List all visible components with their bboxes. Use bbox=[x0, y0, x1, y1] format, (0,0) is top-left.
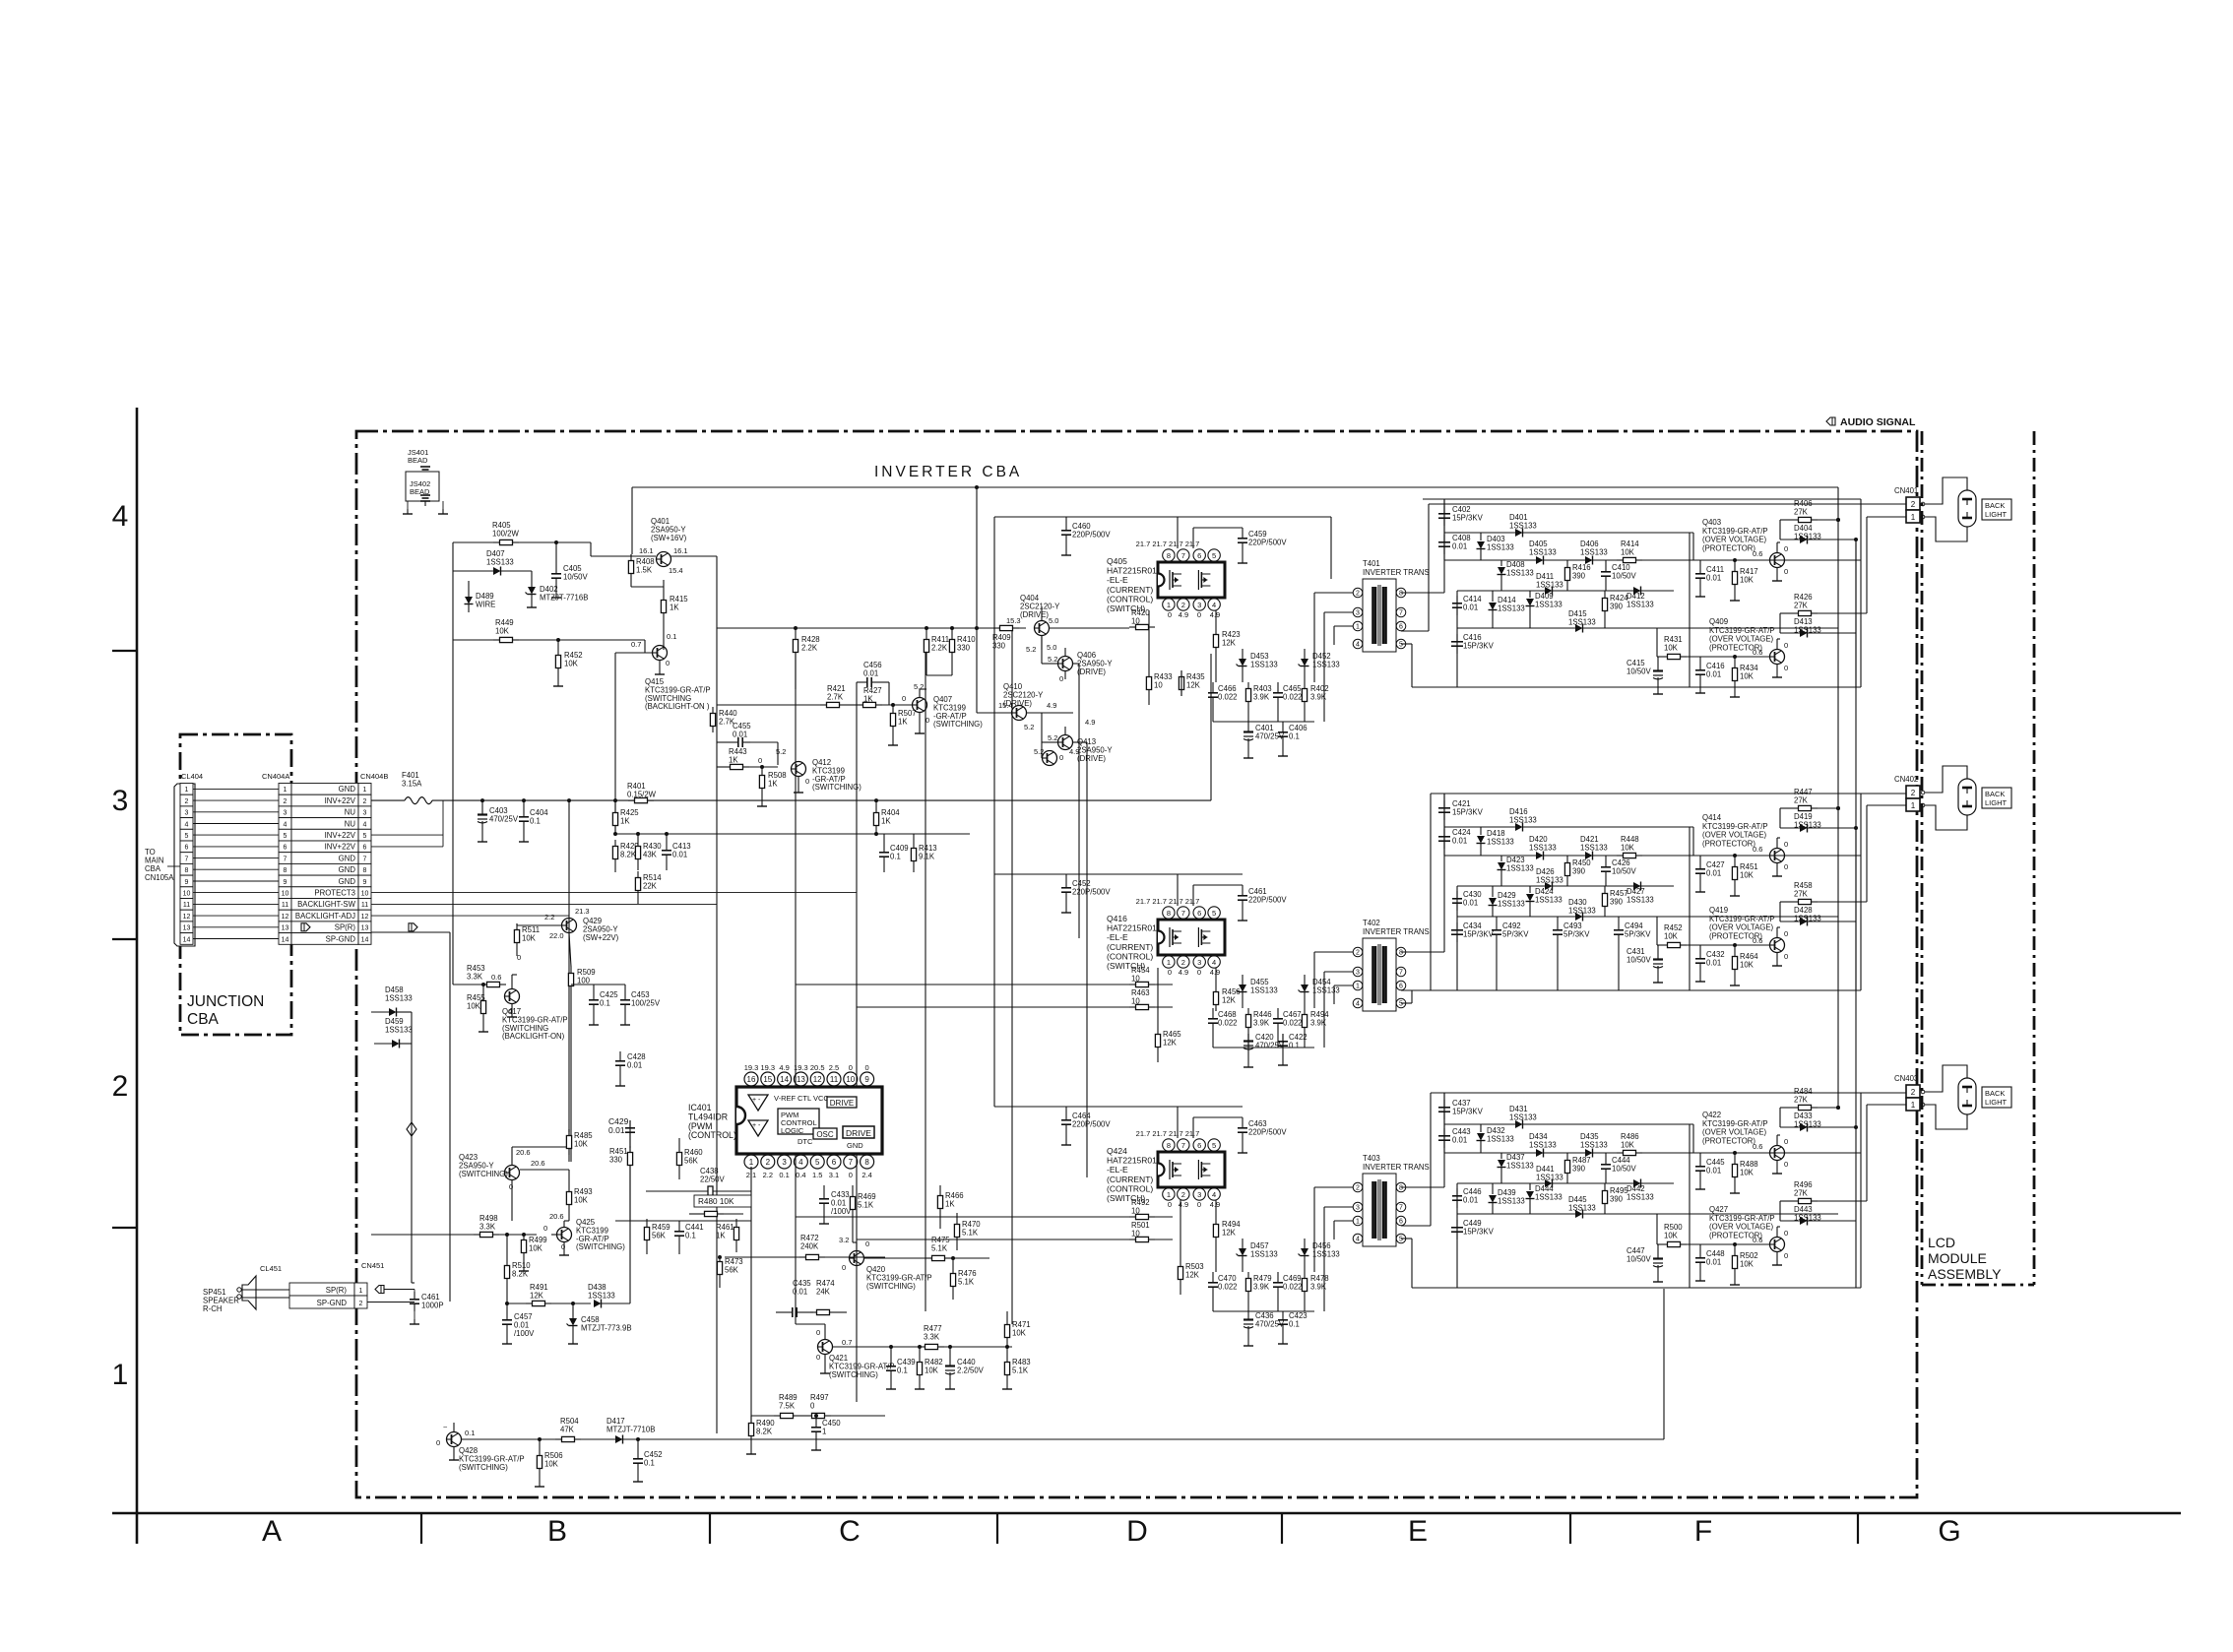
backlight lamp bbox=[1925, 766, 1967, 793]
capacitor C464 220P/500V bbox=[1065, 1112, 1067, 1120]
svg-text:21.7 21.7 21.7 21.7: 21.7 21.7 21.7 21.7 bbox=[1136, 540, 1200, 548]
svg-text:1SS133: 1SS133 bbox=[1535, 600, 1563, 608]
resistor R495 390 bbox=[1604, 1184, 1606, 1191]
resistor R404 1K bbox=[875, 806, 877, 813]
svg-text:22/50V: 22/50V bbox=[700, 1175, 726, 1183]
secondary rail r4 bbox=[1457, 1213, 1838, 1215]
svg-text:15P/3KV: 15P/3KV bbox=[1452, 807, 1484, 816]
resistor R477 3.3K bbox=[919, 1346, 925, 1348]
svg-text:(CONTROL): (CONTROL) bbox=[1107, 594, 1153, 604]
svg-text:0.1: 0.1 bbox=[667, 632, 676, 641]
svg-text:0: 0 bbox=[543, 1224, 547, 1233]
svg-text:0.6: 0.6 bbox=[1753, 1236, 1762, 1244]
svg-text:8.2K: 8.2K bbox=[756, 1427, 773, 1435]
svg-text:390: 390 bbox=[1572, 1164, 1586, 1173]
capacitor C404 0.1 bbox=[523, 809, 525, 817]
svg-text:KTC3199-GR-AT/P: KTC3199-GR-AT/P bbox=[1709, 626, 1775, 635]
svg-text:0: 0 bbox=[925, 716, 929, 725]
svg-text:0: 0 bbox=[1784, 1251, 1788, 1260]
svg-text:LIGHT: LIGHT bbox=[1985, 798, 2008, 807]
svg-text:+ -: + - bbox=[752, 1097, 761, 1104]
svg-text:0: 0 bbox=[810, 1401, 815, 1410]
resistor R480 10K boxed bbox=[694, 1195, 751, 1207]
resistor R411 2.2K bbox=[925, 633, 927, 640]
svg-text:HAT2215R01: HAT2215R01 bbox=[1107, 923, 1157, 933]
svg-text:10K: 10K bbox=[495, 626, 510, 635]
svg-text:1: 1 bbox=[1911, 1101, 1916, 1110]
wire BACKLIGHT-SW row 11 bbox=[371, 903, 717, 905]
svg-text:220P/500V: 220P/500V bbox=[1072, 887, 1111, 896]
secondary rail r2 bbox=[1444, 1152, 1861, 1154]
svg-text:27K: 27K bbox=[1794, 1188, 1809, 1197]
capacitor C413 0.01 bbox=[666, 843, 668, 851]
svg-text:1SS133: 1SS133 bbox=[1568, 906, 1596, 915]
secondary rail r2 bbox=[1444, 559, 1861, 561]
transistor Q429 2SA950-Y SW+22V bbox=[562, 919, 577, 933]
svg-text:10K: 10K bbox=[1740, 575, 1754, 584]
bottom wire y1462 from Q428 bbox=[461, 1438, 1664, 1440]
svg-text:2: 2 bbox=[1356, 1185, 1360, 1192]
svg-text:/100V: /100V bbox=[831, 1207, 852, 1216]
transistor Q415 KTC3199 bbox=[653, 646, 668, 661]
svg-text:0.01: 0.01 bbox=[1463, 1195, 1478, 1204]
svg-text:1SS133: 1SS133 bbox=[1487, 837, 1514, 846]
svg-text:1: 1 bbox=[822, 1427, 826, 1435]
secondary rail r3 bbox=[1457, 590, 1674, 592]
resistor R452 10K bbox=[557, 649, 559, 656]
resistor R475 5.1K bbox=[925, 1257, 932, 1259]
svg-text:NU: NU bbox=[345, 808, 356, 817]
svg-text:0.01: 0.01 bbox=[608, 1125, 625, 1135]
svg-text:1SS133: 1SS133 bbox=[1529, 547, 1557, 556]
wire bus riser x1230 bbox=[1210, 654, 1212, 800]
svg-text:1K: 1K bbox=[716, 1231, 726, 1239]
resistor R466 1K bbox=[939, 1189, 941, 1196]
IC401 comparator triangles bbox=[748, 1095, 768, 1111]
svg-text:(OVER VOLTAGE): (OVER VOLTAGE) bbox=[1702, 831, 1767, 840]
svg-text:1: 1 bbox=[359, 1288, 363, 1295]
wire 22V feed vertical x1010 bbox=[993, 517, 995, 1107]
svg-text:(SWITCHING): (SWITCHING) bbox=[829, 1370, 878, 1379]
svg-text:C: C bbox=[839, 1515, 861, 1548]
capacitor C425 0.1 bbox=[593, 992, 595, 1000]
sub-bus y847 bbox=[615, 833, 970, 835]
transistor Q419 2SA950-Y drive bbox=[1043, 751, 1057, 766]
resistor R427 1K bbox=[857, 704, 863, 706]
svg-text:4.9: 4.9 bbox=[1210, 610, 1220, 619]
svg-text:10/50V: 10/50V bbox=[1612, 866, 1637, 875]
capacitor C449 15P/3KV bbox=[1456, 1220, 1458, 1228]
svg-text:3: 3 bbox=[185, 810, 189, 817]
svg-text:OSC: OSC bbox=[816, 1130, 834, 1139]
resistor R451 330 bbox=[629, 1146, 631, 1153]
svg-text:22.0: 22.0 bbox=[549, 931, 564, 940]
svg-text:12: 12 bbox=[361, 914, 369, 921]
svg-text:0.01: 0.01 bbox=[1463, 898, 1478, 907]
capacitor C421 15P/3KV bbox=[1443, 800, 1445, 808]
svg-text:5.2: 5.2 bbox=[1034, 747, 1044, 756]
svg-text:5: 5 bbox=[815, 1158, 820, 1167]
capacitor C460 220P/500V bbox=[1065, 523, 1067, 531]
svg-text:3.3K: 3.3K bbox=[479, 1222, 496, 1231]
svg-text:(PROTECTOR): (PROTECTOR) bbox=[1702, 1136, 1755, 1145]
svg-text:20.6: 20.6 bbox=[516, 1148, 531, 1157]
capacitor C403 470/25V electrolytic bbox=[481, 807, 483, 815]
resistor R473 56K bbox=[719, 1255, 721, 1262]
svg-text:2: 2 bbox=[1181, 601, 1185, 609]
resistor R433 10 bbox=[1148, 670, 1150, 677]
svg-text:2.7K: 2.7K bbox=[827, 692, 844, 701]
svg-text:9: 9 bbox=[185, 879, 189, 886]
diode D407 1SS133 bbox=[493, 567, 501, 575]
svg-text:DTC: DTC bbox=[797, 1137, 813, 1146]
capacitor C411 0.01 bbox=[1699, 566, 1701, 574]
svg-text:(SWITCHING): (SWITCHING) bbox=[576, 1242, 625, 1251]
svg-text:1SS133: 1SS133 bbox=[1487, 542, 1514, 551]
svg-text:1SS133: 1SS133 bbox=[1312, 985, 1340, 994]
svg-text:SP(R): SP(R) bbox=[326, 1286, 348, 1295]
svg-text:3: 3 bbox=[1356, 970, 1360, 977]
resistor R435 12K bbox=[1180, 670, 1182, 677]
svg-text:INV+22V: INV+22V bbox=[325, 843, 356, 852]
svg-text:3: 3 bbox=[112, 785, 129, 817]
capacitor C422 0.1 bbox=[1282, 1034, 1284, 1042]
svg-text:9: 9 bbox=[864, 1075, 869, 1084]
vertical wire x870 bbox=[856, 705, 858, 1402]
svg-text:10K: 10K bbox=[574, 1195, 589, 1204]
svg-text:7: 7 bbox=[185, 856, 189, 862]
svg-text:MTZJT-7716B: MTZJT-7716B bbox=[540, 593, 588, 602]
resistor R514 22K bbox=[637, 871, 639, 878]
svg-text:3: 3 bbox=[1197, 601, 1201, 609]
svg-text:12K: 12K bbox=[1222, 1228, 1237, 1237]
svg-text:-EL-E: -EL-E bbox=[1107, 932, 1128, 942]
svg-text:10K: 10K bbox=[1621, 547, 1635, 556]
svg-text:CN404A: CN404A bbox=[262, 772, 289, 781]
secondary rail r4 bbox=[1457, 916, 1838, 918]
resistor R488 10K bbox=[1734, 1158, 1736, 1165]
svg-text:0.6: 0.6 bbox=[1753, 549, 1762, 558]
resistor R413 9.1K bbox=[913, 842, 915, 849]
IC401 pin 15 bbox=[761, 1072, 775, 1086]
svg-text:330: 330 bbox=[609, 1155, 623, 1164]
svg-text:11: 11 bbox=[282, 902, 288, 909]
svg-text:16.1: 16.1 bbox=[639, 546, 654, 555]
resistor R440 2.7K bbox=[712, 707, 714, 714]
svg-text:10K: 10K bbox=[574, 1139, 589, 1148]
diode D426 1SS133 bbox=[1545, 882, 1553, 890]
secondary bottom rail bbox=[1412, 686, 1861, 688]
svg-text:2: 2 bbox=[1356, 591, 1360, 598]
svg-text:2.7K: 2.7K bbox=[719, 717, 735, 726]
svg-text:1K: 1K bbox=[945, 1199, 955, 1208]
svg-text:15P/3KV: 15P/3KV bbox=[1452, 1107, 1484, 1115]
svg-text:Q405: Q405 bbox=[1107, 556, 1127, 566]
svg-text:AUDIO SIGNAL: AUDIO SIGNAL bbox=[1840, 416, 1916, 428]
svg-text:Q414: Q414 bbox=[1702, 813, 1722, 822]
svg-text:390: 390 bbox=[1610, 897, 1624, 906]
resistor R509 100 bbox=[570, 967, 572, 974]
diode D454 1SS133 bbox=[1301, 985, 1308, 992]
svg-text:5.2: 5.2 bbox=[914, 682, 924, 691]
resistor R464 10K bbox=[1734, 950, 1736, 957]
svg-text:+ -: + - bbox=[752, 1122, 761, 1129]
resistor R430 43K bbox=[637, 840, 639, 847]
svg-text:100/2W: 100/2W bbox=[492, 529, 520, 538]
capacitor C406 0.1 bbox=[1282, 725, 1284, 732]
svg-text:240K: 240K bbox=[800, 1241, 819, 1250]
svg-text:5.2: 5.2 bbox=[1048, 733, 1057, 742]
resistor R507 1K bbox=[892, 707, 894, 714]
svg-text:12K: 12K bbox=[1222, 638, 1237, 647]
svg-text:INVERTER CBA: INVERTER CBA bbox=[874, 464, 1022, 480]
resistor R508 1K bbox=[761, 769, 763, 776]
capacitor C470 0.022 bbox=[1212, 1275, 1214, 1283]
svg-text:CN404B: CN404B bbox=[360, 772, 388, 781]
diode D434 1SS133 bbox=[1536, 1149, 1544, 1157]
transistor Q417 KTC3199 backlight-on bbox=[505, 989, 520, 1004]
secondary rail r4 bbox=[1457, 627, 1838, 629]
resistor R401 0.15/2W bbox=[628, 799, 635, 801]
diode D405 1SS133 bbox=[1536, 556, 1544, 564]
svg-text:8: 8 bbox=[185, 867, 189, 874]
svg-text:10K: 10K bbox=[1740, 870, 1754, 879]
svg-text:0.4: 0.4 bbox=[796, 1171, 805, 1179]
svg-text:6: 6 bbox=[1399, 984, 1403, 990]
svg-text:0.6: 0.6 bbox=[1753, 845, 1762, 854]
transistor Q428 KTC3199 switching bbox=[447, 1432, 462, 1447]
resistor R446 3.9K bbox=[1247, 1008, 1249, 1015]
capacitor C427 0.01 bbox=[1699, 861, 1701, 869]
svg-text:2.2K: 2.2K bbox=[801, 643, 818, 652]
svg-text:5: 5 bbox=[284, 833, 287, 840]
resistor R415 1K bbox=[663, 594, 665, 601]
svg-text:5: 5 bbox=[1399, 1237, 1403, 1243]
capacitor C437 15P/3KV bbox=[1443, 1100, 1445, 1108]
capacitor C429 0.01 bbox=[629, 1120, 631, 1128]
svg-text:6: 6 bbox=[1399, 624, 1403, 631]
svg-text:BEAD: BEAD bbox=[408, 456, 428, 465]
column tick marks bbox=[420, 1513, 422, 1544]
svg-text:7: 7 bbox=[1181, 1141, 1185, 1150]
svg-text:CTL: CTL bbox=[797, 1094, 811, 1103]
svg-text:21.7 21.7 21.7 21.7: 21.7 21.7 21.7 21.7 bbox=[1136, 1129, 1200, 1138]
svg-text:0: 0 bbox=[1168, 610, 1172, 619]
svg-text:220P/500V: 220P/500V bbox=[1248, 538, 1287, 546]
svg-text:4: 4 bbox=[1212, 1190, 1216, 1199]
svg-text:220P/500V: 220P/500V bbox=[1072, 530, 1111, 539]
svg-text:0: 0 bbox=[865, 1063, 869, 1072]
svg-text:INVERTER TRANS: INVERTER TRANS bbox=[1363, 927, 1430, 936]
svg-text:E: E bbox=[1408, 1515, 1428, 1548]
svg-text:R480 10K: R480 10K bbox=[698, 1197, 734, 1206]
svg-text:7: 7 bbox=[284, 856, 287, 862]
svg-text:1SS133: 1SS133 bbox=[1627, 1192, 1654, 1201]
svg-text:13: 13 bbox=[361, 925, 369, 932]
svg-text:0.6: 0.6 bbox=[1753, 648, 1762, 657]
svg-text:6: 6 bbox=[1197, 551, 1201, 560]
capacitor C423 0.1 bbox=[1282, 1312, 1284, 1320]
capacitor C468 0.022 bbox=[1212, 1011, 1214, 1019]
diode D438 1SS133 bbox=[594, 1300, 602, 1307]
capacitor C453 100/25V bbox=[624, 992, 626, 1000]
svg-text:0: 0 bbox=[816, 1353, 820, 1362]
resistor R410 330 bbox=[951, 633, 953, 640]
resistor R461 1K bbox=[735, 1221, 737, 1228]
svg-text:KTC3199-GR-AT/P: KTC3199-GR-AT/P bbox=[1702, 527, 1768, 536]
svg-text:0.01: 0.01 bbox=[1452, 836, 1467, 845]
svg-text:1SS133: 1SS133 bbox=[1535, 895, 1563, 904]
svg-text:1K: 1K bbox=[729, 755, 738, 764]
svg-text:F: F bbox=[1694, 1515, 1712, 1548]
capacitor C426 10/50V bbox=[1605, 859, 1607, 867]
wire y1438 R489/R497 row bbox=[751, 1415, 885, 1417]
wire quad bottom bbox=[1213, 1310, 1314, 1312]
wires CL404 to CN404A bbox=[193, 788, 279, 790]
svg-text:SP-GND: SP-GND bbox=[317, 1299, 348, 1307]
svg-text:(SWITCHING): (SWITCHING) bbox=[812, 783, 861, 792]
resistor R503 12K bbox=[1180, 1260, 1181, 1267]
svg-text:4.9: 4.9 bbox=[1179, 610, 1188, 619]
svg-text:0: 0 bbox=[1059, 674, 1063, 683]
svg-text:8: 8 bbox=[864, 1158, 869, 1167]
resistor R494 3.9K bbox=[1304, 1008, 1306, 1015]
svg-text:PROTECT3: PROTECT3 bbox=[314, 889, 355, 898]
svg-text:(CONTROL): (CONTROL) bbox=[1107, 951, 1153, 961]
svg-text:0.022: 0.022 bbox=[1283, 692, 1303, 701]
svg-text:0.1: 0.1 bbox=[1289, 731, 1300, 740]
svg-text:5.2: 5.2 bbox=[776, 747, 786, 756]
svg-text:56K: 56K bbox=[652, 1231, 667, 1239]
capacitor C420 470/25V bbox=[1247, 1034, 1249, 1042]
IC401 pin 7 bbox=[844, 1155, 858, 1169]
svg-text:2.2/50V: 2.2/50V bbox=[957, 1366, 985, 1374]
diode D420 1SS133 bbox=[1536, 852, 1544, 859]
capacitor C446 0.01 bbox=[1456, 1188, 1458, 1196]
wire IC401 drive to ch3 R492/R501 bbox=[796, 1216, 1129, 1218]
svg-text:1SS133: 1SS133 bbox=[1535, 1192, 1563, 1201]
svg-text:8: 8 bbox=[1167, 551, 1171, 560]
diode D401 1SS133 bbox=[1515, 529, 1523, 537]
svg-text:INV+22V: INV+22V bbox=[325, 796, 356, 805]
IC401 pin 9 bbox=[861, 1072, 874, 1086]
BACK LIGHT label bbox=[1982, 1087, 2011, 1108]
backlight lamp bbox=[1925, 1065, 1967, 1092]
svg-text:0.7: 0.7 bbox=[842, 1338, 852, 1347]
resistor R490 8.2K bbox=[750, 1417, 752, 1424]
svg-text:10K: 10K bbox=[1740, 1259, 1754, 1268]
svg-text:4.9: 4.9 bbox=[1179, 968, 1188, 977]
capacitor C415 10/50V at protector bbox=[1657, 664, 1659, 671]
IC401 pin 6 bbox=[827, 1155, 841, 1169]
svg-text:CN105A: CN105A bbox=[145, 873, 174, 882]
svg-text:0: 0 bbox=[517, 953, 521, 962]
svg-text:ASSEMBLY: ASSEMBLY bbox=[1928, 1266, 2002, 1282]
svg-text:220P/500V: 220P/500V bbox=[1072, 1119, 1111, 1128]
diode D441 1SS133 bbox=[1545, 1179, 1553, 1187]
svg-text:21.7 21.7 21.7 21.7: 21.7 21.7 21.7 21.7 bbox=[1136, 897, 1200, 906]
resistor R479 3.9K bbox=[1247, 1272, 1249, 1279]
secondary top rail bbox=[1423, 498, 1861, 500]
svg-text:10K: 10K bbox=[564, 659, 579, 667]
svg-text:Q416: Q416 bbox=[1107, 914, 1127, 923]
wire top feed y495 bbox=[632, 486, 1838, 488]
svg-text:1SS133: 1SS133 bbox=[1506, 1161, 1534, 1170]
svg-text:JUNCTION: JUNCTION bbox=[187, 993, 264, 1010]
svg-text:4.9: 4.9 bbox=[1069, 747, 1079, 756]
transformer lead wires bbox=[1314, 951, 1353, 953]
svg-text:(OVER VOLTAGE): (OVER VOLTAGE) bbox=[1709, 1223, 1774, 1232]
svg-text:6: 6 bbox=[1197, 909, 1201, 918]
svg-text:0: 0 bbox=[1168, 1200, 1172, 1209]
vertical wire x763 from IC401 pin1 bbox=[750, 1167, 752, 1432]
svg-text:20.6: 20.6 bbox=[531, 1159, 545, 1168]
svg-text:LCD: LCD bbox=[1928, 1235, 1955, 1250]
svg-text:1K: 1K bbox=[898, 717, 908, 726]
capacitor C469 0.022 bbox=[1277, 1275, 1279, 1283]
svg-text:Q427: Q427 bbox=[1709, 1205, 1728, 1214]
capacitor C402 15P/3KV bbox=[1443, 506, 1445, 514]
svg-text:10/50V: 10/50V bbox=[563, 572, 589, 581]
svg-text:1SS133: 1SS133 bbox=[1312, 660, 1340, 668]
svg-text:DRIVE: DRIVE bbox=[830, 1099, 854, 1108]
transistor Q420 KTC3199 switching bbox=[850, 1251, 864, 1266]
svg-text:CN401: CN401 bbox=[1894, 486, 1918, 495]
secondary rail r3 bbox=[1457, 885, 1674, 887]
svg-text:KTC3199-GR-AT/P: KTC3199-GR-AT/P bbox=[1702, 822, 1768, 831]
resistor R476 5.1K bbox=[952, 1267, 954, 1274]
svg-text:4.9: 4.9 bbox=[1179, 1200, 1188, 1209]
svg-text:6: 6 bbox=[185, 845, 189, 852]
svg-text:3: 3 bbox=[1356, 610, 1360, 617]
svg-text:2.2: 2.2 bbox=[763, 1171, 773, 1179]
svg-text:0: 0 bbox=[666, 659, 670, 667]
svg-text:1SS133: 1SS133 bbox=[1536, 580, 1563, 589]
svg-text:BACKLIGHT-ADJ: BACKLIGHT-ADJ bbox=[295, 912, 355, 921]
svg-text:CL451: CL451 bbox=[260, 1264, 282, 1273]
svg-text:GND: GND bbox=[339, 785, 356, 794]
resistor R448 10K bbox=[1617, 855, 1624, 857]
wire PROTECT3 row 10 bbox=[371, 892, 857, 894]
capacitor C444 10/50V bbox=[1605, 1157, 1607, 1165]
svg-text:0.01: 0.01 bbox=[1452, 541, 1467, 550]
svg-text:WIRE: WIRE bbox=[476, 600, 495, 608]
svg-text:6: 6 bbox=[284, 845, 287, 852]
resistor R402 3.9K bbox=[1304, 682, 1306, 689]
svg-text:0: 0 bbox=[758, 756, 762, 765]
capacitor C431 10/50V at protector bbox=[1657, 952, 1659, 960]
svg-text:0.022: 0.022 bbox=[1218, 692, 1238, 701]
capacitor C493 5P/3KV bbox=[1557, 922, 1559, 930]
wire CN pin1 feed bbox=[1867, 516, 1906, 518]
wire T pin8 bbox=[1401, 951, 1444, 953]
svg-text:4: 4 bbox=[798, 1158, 803, 1167]
svg-text:0: 0 bbox=[1784, 840, 1788, 849]
diode D430 1SS133 bbox=[1575, 913, 1583, 921]
resistor R423 12K bbox=[1215, 628, 1217, 635]
svg-text:4.9: 4.9 bbox=[1210, 968, 1220, 977]
svg-text:8: 8 bbox=[1399, 591, 1403, 598]
svg-text:3: 3 bbox=[1197, 958, 1201, 967]
wire IC401 drive to ch2 R454/R463 bbox=[796, 984, 1129, 985]
vertical wire x457 speaker feed bbox=[449, 932, 451, 1302]
svg-text:0.1: 0.1 bbox=[465, 1429, 475, 1437]
svg-text:15.4: 15.4 bbox=[998, 701, 1013, 710]
svg-text:1SS133: 1SS133 bbox=[588, 1291, 615, 1300]
svg-text:0: 0 bbox=[1784, 929, 1788, 938]
svg-text:10: 10 bbox=[361, 891, 369, 898]
svg-text:0.1: 0.1 bbox=[897, 1366, 908, 1374]
